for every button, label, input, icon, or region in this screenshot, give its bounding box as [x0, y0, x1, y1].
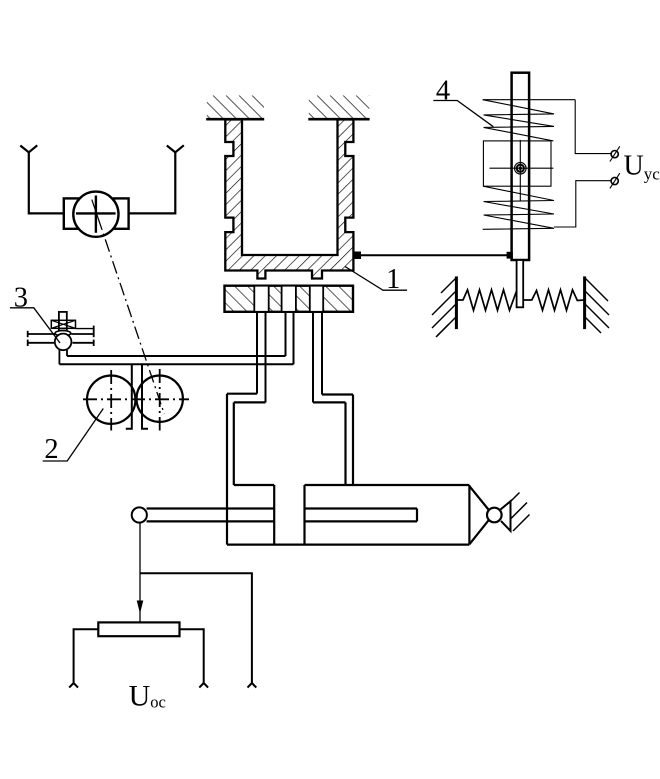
cone to support pivot — [469, 486, 488, 544]
valve (component 3) — [51, 312, 75, 364]
roller right — [137, 376, 183, 422]
rod end pivot circle — [132, 507, 147, 522]
dash-dot axis from gauge to roller — [98, 218, 164, 414]
cylinder body — [227, 485, 469, 545]
terminal top — [610, 146, 620, 161]
follower line from rod pivot down — [139, 523, 141, 623]
valve outlet pipe right with flange ticks — [71, 326, 93, 346]
right spring — [523, 290, 584, 311]
wire mold to lever — [361, 254, 512, 256]
ceiling support right (hatched) — [308, 96, 369, 120]
roller left (component 2) — [87, 376, 135, 424]
valve inlet pipe left with flange ticks — [28, 331, 55, 346]
piston rod — [147, 509, 417, 522]
branch to right wire — [140, 573, 252, 683]
potentiometer body — [98, 622, 179, 636]
ground fork feet — [69, 683, 256, 688]
pivot rings — [515, 162, 527, 174]
connector square at lever — [507, 252, 513, 259]
label 2 — [43, 409, 104, 466]
lower coil — [483, 186, 554, 229]
hanger lines between rollers — [126, 364, 148, 429]
upper coil — [483, 100, 576, 141]
roller center lines (dash-dot) — [83, 369, 189, 431]
connector square on mold (node to lever line) — [353, 252, 361, 260]
potentiometer right lead — [180, 629, 204, 683]
gauge link arms and antenna forks — [20, 145, 184, 213]
fixed support bracket with hatch — [501, 493, 530, 532]
left channel (pipe from platen slot 1 down to chamber) — [256, 312, 258, 394]
wiper arrow — [137, 601, 144, 614]
label 4 — [433, 76, 493, 127]
feed pipe from valve to middle channel — [67, 355, 286, 357]
spring anchor wall right — [585, 276, 609, 333]
label 3 — [10, 283, 60, 343]
ceiling support left (hatched) — [206, 96, 264, 120]
support pivot circle — [487, 508, 502, 523]
coil wires to terminals — [554, 100, 611, 227]
press chamber inner walls — [234, 402, 346, 485]
left spring — [456, 290, 516, 311]
magnet frame — [483, 141, 551, 186]
svg-text:3: 3 — [14, 283, 28, 314]
press chamber outer walls — [227, 394, 353, 545]
gauge head (top-left transmitter) — [64, 192, 129, 237]
middle channel (pipe from platen slot 2 to valve pipe) — [285, 312, 287, 356]
piston — [274, 485, 304, 545]
svg-text:4: 4 — [436, 76, 450, 107]
mold body U-channel (component 1, hatched) — [225, 120, 353, 279]
potentiometer left lead — [74, 629, 99, 683]
label 1 — [345, 264, 407, 295]
armature axis lines — [490, 167, 554, 169]
lever bar (component 4) — [512, 73, 529, 260]
platen (hatched block with slots) — [225, 286, 354, 312]
lever lower rod — [517, 260, 524, 307]
terminal bottom — [610, 173, 620, 188]
right channel (pipe from platen slot 3 down to chamber) — [312, 312, 314, 403]
spring anchor wall left — [432, 276, 456, 337]
